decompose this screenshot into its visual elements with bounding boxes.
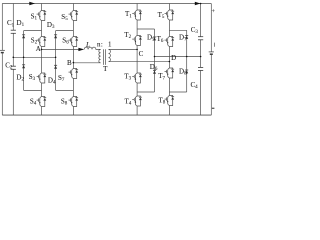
svg-text:S5: S5 <box>61 13 68 22</box>
svg-text:T7: T7 <box>158 72 165 81</box>
svg-text:T8: T8 <box>159 97 166 106</box>
svg-text:S8: S8 <box>61 97 68 106</box>
svg-text:S1: S1 <box>31 13 38 22</box>
svg-text:L: L <box>85 41 90 49</box>
svg-text:D8: D8 <box>179 67 187 76</box>
svg-text:T: T <box>103 65 108 73</box>
svg-text:T1: T1 <box>125 10 132 19</box>
svg-text:C3: C3 <box>191 26 199 35</box>
svg-text:S7: S7 <box>58 74 65 83</box>
svg-text:D4: D4 <box>48 76 56 85</box>
svg-text:C2: C2 <box>5 62 13 71</box>
svg-text:D7: D7 <box>179 33 187 42</box>
svg-text:T5: T5 <box>158 11 165 20</box>
svg-text:D6: D6 <box>150 63 158 72</box>
svg-text:D5: D5 <box>147 33 155 42</box>
svg-text:D3: D3 <box>47 21 55 30</box>
svg-text:C4: C4 <box>191 81 199 90</box>
svg-text:A: A <box>36 45 41 53</box>
svg-text:T4: T4 <box>125 97 132 106</box>
svg-text:+: + <box>212 9 216 15</box>
svg-text:S4: S4 <box>30 97 37 106</box>
svg-text:T6: T6 <box>157 35 164 44</box>
svg-text:D: D <box>171 54 176 62</box>
svg-text:D1: D1 <box>17 19 25 28</box>
svg-text:C: C <box>139 50 144 58</box>
svg-text:1: 1 <box>108 41 112 49</box>
svg-text:T3: T3 <box>124 72 131 81</box>
svg-text:T2: T2 <box>124 31 131 40</box>
svg-text:B: B <box>67 59 72 67</box>
svg-text::: : <box>101 41 103 49</box>
svg-text:S6: S6 <box>62 36 69 45</box>
svg-text:S3: S3 <box>29 73 36 82</box>
